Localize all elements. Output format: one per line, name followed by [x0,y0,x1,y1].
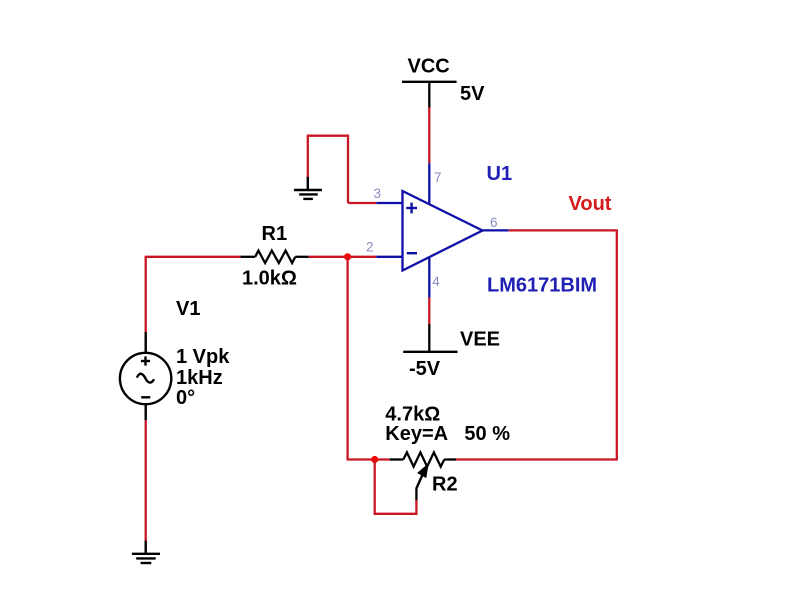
svg-text:6: 6 [490,215,498,230]
junction node at pin 2 [344,253,351,260]
svg-text:VCC: VCC [408,56,450,78]
svg-text:4.7kΩ: 4.7kΩ [385,403,440,425]
op-amp pin 7 wire (blue) [428,163,430,204]
svg-text:3: 3 [374,186,382,201]
wire ground G1 riser (red) [307,136,309,177]
wire wiper loop: bottom horizontal (red) [374,513,418,515]
op-amp U1 triangle [403,191,483,271]
svg-text:V1: V1 [176,298,200,320]
svg-text:4: 4 [432,274,440,289]
svg-text:R2: R2 [432,474,458,496]
source V1 symbol [120,332,171,420]
wire wiper loop: down from junction (red) [374,460,376,514]
svg-text:VEE: VEE [460,329,500,351]
wire wiper loop: up to wiper (red) [415,500,417,515]
power VCC symbol [402,82,457,109]
svg-text:0°: 0° [176,387,195,409]
svg-text:-5V: -5V [409,358,441,380]
resistor R1 [240,251,308,263]
wire R2 to output (red) [456,458,617,460]
svg-text:50 %: 50 % [464,423,510,445]
wire V1 riser (red) [145,256,147,332]
svg-text:1 Vpk: 1 Vpk [176,346,230,368]
wire VCC to pin 7 (red) [428,107,430,163]
power VEE symbol [403,324,457,352]
wire into pin 3 (red) [348,202,376,204]
potentiometer R2 body [390,452,456,466]
svg-text:2: 2 [366,240,374,255]
wire R1 to pin 2 (red) [309,256,377,258]
op-amp pin 4 wire (blue) [428,257,430,297]
svg-text:U1: U1 [487,163,513,185]
svg-text:7: 7 [434,170,442,185]
wire pin 4 to VEE (red) [428,298,430,326]
potentiometer R2 wiper arrow [416,465,427,489]
wire output down to feedback (red) [616,230,618,460]
wire V1 to R1 (red) [146,256,241,258]
op-amp plus input marker [406,203,417,214]
svg-text:R1: R1 [262,223,288,245]
wire output horizontal (red) [509,229,618,231]
svg-text:Key=A: Key=A [385,423,448,445]
wire wiper stub (black) [415,488,417,500]
wire down to pin 3 (red) [347,135,349,203]
ground G1 (non-inverting input) [294,176,322,199]
svg-text:1.0kΩ: 1.0kΩ [242,268,297,290]
op-amp minus input marker [407,252,417,254]
svg-text:1kHz: 1kHz [176,367,223,389]
svg-text:LM6171BIM: LM6171BIM [487,275,597,297]
op-amp pin 3 wire (blue) [376,202,402,204]
junction node at potentiometer [371,456,378,463]
svg-text:5V: 5V [460,83,485,105]
wire junction down to feedback row (red) [346,257,348,460]
op-amp pin 6 wire (blue) [482,229,509,231]
wire V1 to ground G2 (red) [145,420,147,541]
wire ground G1 top horizontal (red) [307,135,349,137]
op-amp pin 2 wire (blue) [376,256,402,258]
wire feedback row left (red) [347,458,390,460]
ground G2 (below V1) [132,541,160,563]
svg-text:Vout: Vout [569,193,612,215]
